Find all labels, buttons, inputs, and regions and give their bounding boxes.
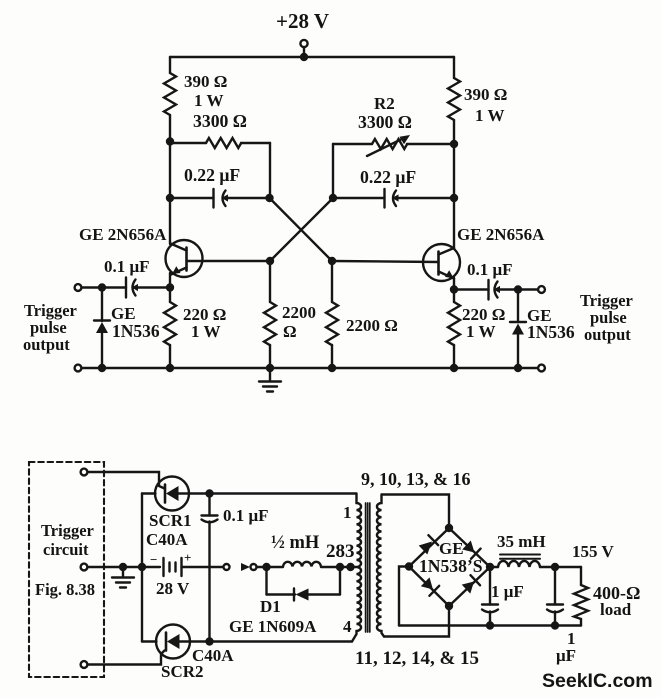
wire bridge left to bottom rail <box>399 567 409 626</box>
trigger circuit dashed box <box>29 462 104 677</box>
node rail 220 left <box>166 364 174 372</box>
bridge diode top-left <box>419 535 439 554</box>
wire bottom rail <box>81 367 538 369</box>
wire SCR1 gate <box>88 472 165 489</box>
transistor Q2 GE 2N656A right <box>332 244 460 281</box>
node right diode top <box>514 285 522 293</box>
svg-text:SeekIC.com: SeekIC.com <box>542 670 653 692</box>
svg-text:0.1 μF: 0.1 μF <box>104 257 150 276</box>
wire secondary bottom to bridge <box>384 606 449 637</box>
core lines <box>365 503 367 632</box>
resistor 220 ohm 1W left <box>164 302 176 368</box>
capacitor 0.1uF left <box>81 278 170 298</box>
resistor 400 ohm load <box>574 567 588 626</box>
wire top rail <box>170 56 454 58</box>
resistor 2200 ohm second <box>326 302 338 368</box>
wire cross-coupling diagonal B <box>270 198 333 261</box>
node right emitter <box>450 285 458 293</box>
node left base junction <box>266 257 274 265</box>
svg-text:155 V: 155 V <box>572 542 614 561</box>
diode GE 1N536 left <box>94 288 110 369</box>
wire SCR1 anode to transformer <box>210 492 357 494</box>
wire output bottom rail <box>399 624 581 626</box>
svg-text:−: − <box>150 552 157 567</box>
node right cap loop right <box>450 194 458 202</box>
node ground tap <box>119 563 127 571</box>
svg-text:2200 Ω: 2200 Ω <box>346 316 398 335</box>
resistor 220 ohm 1W right <box>448 302 460 345</box>
svg-text:Fig. 8.38: Fig. 8.38 <box>35 580 95 599</box>
trigger box terminal bottom <box>81 661 88 668</box>
node left emitter <box>166 283 174 291</box>
svg-text:SCR2: SCR2 <box>161 662 204 681</box>
svg-text:1 W: 1 W <box>475 106 504 125</box>
svg-text:1 μF: 1 μF <box>491 582 524 601</box>
wire secondary top to bridge <box>382 495 449 529</box>
svg-text:4: 4 <box>343 617 352 636</box>
battery 28V <box>164 558 224 576</box>
node left diode top <box>98 283 106 291</box>
svg-text:390 Ω: 390 Ω <box>464 85 507 104</box>
svg-text:C40A: C40A <box>146 530 188 549</box>
node rail 2200 first <box>266 364 274 372</box>
bridge node right <box>486 563 494 571</box>
node +28V junction <box>300 53 308 61</box>
svg-text:1N538’S: 1N538’S <box>419 556 483 576</box>
bridge node left <box>405 562 413 570</box>
SCR2 C40A <box>142 625 210 659</box>
svg-text:28 V: 28 V <box>156 579 190 598</box>
left trigger output terminal bottom <box>75 365 82 372</box>
svg-text:283: 283 <box>326 541 355 562</box>
svg-text:½ mH: ½ mH <box>271 533 320 553</box>
svg-text:circuit: circuit <box>43 540 89 559</box>
svg-text:+28 V: +28 V <box>276 9 329 33</box>
svg-text:GE 1N609A: GE 1N609A <box>229 617 317 636</box>
node cap2 top <box>551 563 559 571</box>
node right cap loop left <box>329 194 337 202</box>
wire SCR2 anode to transformer <box>210 640 353 642</box>
svg-text:11, 12, 14, & 15: 11, 12, 14, & 15 <box>355 648 479 669</box>
svg-text:Trigger: Trigger <box>41 521 94 540</box>
trigger box terminal mid <box>81 564 88 571</box>
bridge diode bottom-right <box>462 575 480 593</box>
svg-text:3300 Ω: 3300 Ω <box>358 112 412 132</box>
svg-text:SCR1: SCR1 <box>149 511 192 530</box>
wire base node down right 2200 <box>331 261 333 302</box>
node cap1 bottom <box>486 621 494 629</box>
svg-text:output: output <box>23 335 70 354</box>
variable resistor R2 3300 ohm <box>333 135 454 198</box>
svg-text:GE 2N656A: GE 2N656A <box>457 225 545 244</box>
capacitor 0.1uF scr <box>202 494 218 642</box>
svg-text:1 W: 1 W <box>191 322 220 341</box>
node rail 2200 second <box>328 364 336 372</box>
ground top circuit <box>259 368 281 392</box>
bridge node top <box>445 524 453 532</box>
resistor 390 ohm 1W right <box>448 78 460 120</box>
wire cathode bus left vertical <box>141 494 143 642</box>
svg-text:output: output <box>584 325 631 344</box>
node cap2 bottom <box>551 621 559 629</box>
svg-text:390 Ω: 390 Ω <box>184 72 227 91</box>
wire right vertical <box>453 120 455 249</box>
node left collector feed <box>166 137 174 145</box>
svg-text:35 mH: 35 mH <box>497 532 546 551</box>
node rail diode left <box>98 364 106 372</box>
node scr2 anode <box>205 637 213 645</box>
svg-text:0.22 μF: 0.22 μF <box>184 165 240 185</box>
bridge diode top-right <box>462 541 480 559</box>
wire left emitter down <box>169 273 171 302</box>
svg-text:1N536: 1N536 <box>112 321 160 341</box>
primary winding <box>352 494 361 642</box>
svg-text:μF: μF <box>556 646 576 665</box>
capacitor 0.22uF left <box>170 189 269 208</box>
wire base node down left 2200 <box>269 261 271 302</box>
wire right vertical upper <box>453 57 455 78</box>
svg-text:1N536: 1N536 <box>527 322 575 342</box>
capacitor 0.22uF right <box>333 189 454 208</box>
node rail 220 right <box>450 364 458 372</box>
svg-text:3300 Ω: 3300 Ω <box>193 111 247 131</box>
wire right emitter down <box>453 278 455 302</box>
svg-text:2200: 2200 <box>282 303 316 322</box>
SCR1 C40A <box>142 477 210 511</box>
wire cross-coupling diagonal A <box>270 198 333 261</box>
node center tap <box>346 563 354 571</box>
wire SCR2 gate <box>88 651 165 665</box>
resistor 3300 ohm left <box>170 138 270 198</box>
svg-text:0.22 μF: 0.22 μF <box>360 167 416 187</box>
node left cap loop left <box>166 194 174 202</box>
node D1 branch left <box>262 563 270 571</box>
svg-text:load: load <box>600 600 632 619</box>
svg-text:0.1 μF: 0.1 μF <box>223 506 269 525</box>
left trigger output terminal top <box>75 284 82 291</box>
capacitor 0.1uF right <box>454 280 538 300</box>
wire left vertical upper <box>169 57 171 73</box>
node rail diode right <box>514 364 522 372</box>
svg-text:9, 10, 13, & 16: 9, 10, 13, & 16 <box>361 469 471 489</box>
inductor 1/2 mH <box>283 562 321 567</box>
+28 V supply terminal <box>300 40 307 57</box>
diode GE 1N536 right <box>510 290 526 369</box>
svg-text:D1: D1 <box>260 597 281 616</box>
bridge diode bottom-left <box>421 577 439 595</box>
diode D1 GE 1N609A loop <box>267 567 341 601</box>
capacitor 1uF first <box>482 567 498 626</box>
inductor 35 mH <box>490 555 581 568</box>
resistor 2200 ohm first <box>264 302 276 368</box>
trigger box terminal top <box>81 469 88 476</box>
svg-text:GE 2N656A: GE 2N656A <box>79 225 167 244</box>
wire left vertical <box>169 115 171 244</box>
bridge rectifier GE 1N538's <box>409 528 490 606</box>
svg-text:1 W: 1 W <box>194 91 223 110</box>
svg-text:+: + <box>184 550 191 565</box>
right trigger output terminal bottom <box>538 365 545 372</box>
node left cap loop right <box>265 194 273 202</box>
node D1 branch right <box>336 563 344 571</box>
svg-text:1 W: 1 W <box>466 322 495 341</box>
node scr1 anode <box>205 489 213 497</box>
svg-text:R2: R2 <box>374 94 395 113</box>
ground bottom circuit <box>112 567 134 588</box>
transistor Q1 GE 2N656A left <box>166 240 271 277</box>
bridge node bottom <box>445 602 453 610</box>
svg-text:1: 1 <box>343 503 352 522</box>
transformer T1 <box>352 494 384 642</box>
node right base junction <box>328 257 336 265</box>
node battery minus <box>138 563 146 571</box>
wire middle from trigger box <box>88 566 161 568</box>
secondary winding <box>377 495 384 637</box>
capacitor 1uF second <box>547 567 563 626</box>
svg-text:0.1 μF: 0.1 μF <box>467 260 513 279</box>
wire inductor to tap <box>321 566 356 568</box>
right trigger output terminal top <box>538 286 545 293</box>
svg-text:Ω: Ω <box>283 322 297 341</box>
resistor 390 ohm 1W left <box>164 73 176 115</box>
node right R2 feed <box>450 140 458 148</box>
connector plug pair <box>224 563 284 571</box>
